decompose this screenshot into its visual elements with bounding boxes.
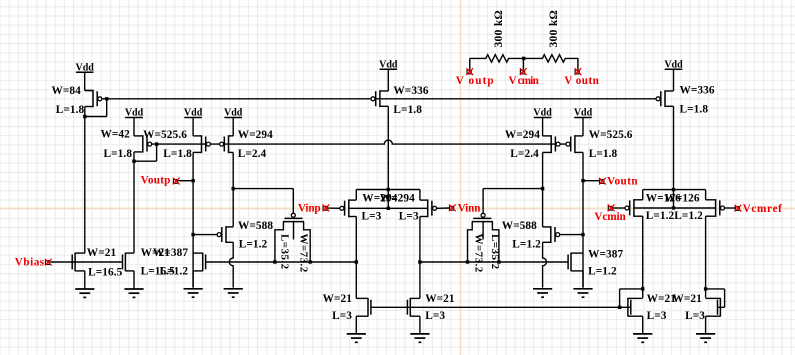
wire right source riser bbox=[419, 190, 421, 201]
svg-text:L=2.4: L=2.4 bbox=[238, 148, 267, 160]
node M1 drain junction bbox=[83, 115, 86, 118]
ground gnd M21 bbox=[633, 334, 652, 342]
capacitor-connected pmos C1 W=73.2 L=35.2 bbox=[275, 213, 310, 262]
wire input pair source bar bbox=[356, 189, 420, 191]
wire M15 gate wire bbox=[560, 234, 583, 236]
wire M22 diode tie horizontal bbox=[706, 288, 725, 290]
wire Vcmin gate wire bbox=[613, 207, 625, 209]
transistor M19 W=21 L=3 nmos bbox=[356, 298, 371, 317]
guide horizontal line bbox=[0, 207, 795, 209]
svg-text:W=336: W=336 bbox=[680, 85, 715, 97]
wire M1 gate-drain tie horizontal bbox=[85, 116, 107, 118]
svg-text:L=1.8: L=1.8 bbox=[680, 104, 709, 116]
svg-text:L=1.8: L=1.8 bbox=[104, 148, 133, 160]
export marker Voutp top export bbox=[466, 68, 473, 75]
svg-text:W=588: W=588 bbox=[502, 220, 537, 232]
svg-text:L=1.8: L=1.8 bbox=[589, 148, 618, 160]
svg-text:L=1.2: L=1.2 bbox=[674, 210, 703, 222]
svg-text:L=3: L=3 bbox=[685, 310, 705, 322]
wire Vinp gate wire bbox=[328, 207, 340, 209]
svg-text:V outp: V outp bbox=[456, 75, 495, 87]
resistor R2 300kOhm bbox=[524, 55, 579, 62]
wire Vdd1 stub bbox=[84, 72, 86, 90]
svg-text:L=3: L=3 bbox=[362, 210, 382, 222]
svg-text:W=525.6: W=525.6 bbox=[143, 129, 187, 141]
wire M2 drain riser to tail bbox=[387, 106, 389, 189]
svg-text:L=1.2: L=1.2 bbox=[588, 266, 617, 278]
wire cmfb bulk bar bbox=[634, 207, 716, 209]
wire gate net M1 to W=336 mirrors bbox=[107, 98, 657, 100]
svg-text:L=35.2: L=35.2 bbox=[278, 234, 290, 270]
transistor M22 W=21 L=3 nmos bbox=[706, 298, 721, 317]
svg-text:W=336: W=336 bbox=[393, 85, 428, 97]
ground gnd M10 bbox=[184, 289, 203, 297]
node M12 drain junction bbox=[418, 260, 421, 263]
wire input pair bulk bar bbox=[349, 207, 428, 209]
wire Vdd5 stub bbox=[387, 69, 389, 91]
node C1 left terminal junction bbox=[273, 260, 276, 263]
power Vdd Vdd2 bbox=[125, 108, 144, 119]
export marker Voutn top export bbox=[575, 68, 582, 75]
wire M3 drain riser to cmfb tail bbox=[673, 106, 675, 189]
wire M17 source to ground bbox=[84, 271, 86, 289]
node M13 drain junction bbox=[641, 287, 644, 290]
node M15 gate junction bbox=[581, 233, 584, 236]
wire M14 drain down bbox=[705, 216, 707, 298]
power Vdd Vdd8 bbox=[664, 60, 683, 71]
transistor M11 W=294 input left bbox=[340, 199, 356, 217]
svg-text:W=588: W=588 bbox=[238, 220, 273, 232]
wire R mid drop bbox=[522, 58, 524, 69]
wire Vdd3 stub bbox=[192, 118, 194, 136]
wire M12 drain down bbox=[419, 217, 421, 299]
ground gnd M17 bbox=[75, 289, 94, 297]
svg-text:L=1.2: L=1.2 bbox=[512, 239, 541, 251]
export marker Vinn export bbox=[449, 204, 456, 211]
svg-text:W=21: W=21 bbox=[673, 293, 703, 305]
wire M19 source to ground bbox=[355, 316, 357, 334]
svg-text:L=16.5: L=16.5 bbox=[88, 266, 123, 278]
wire cmfb tail to bulk bbox=[673, 190, 675, 208]
power Vdd Vdd3 bbox=[184, 108, 203, 119]
wire left source riser bbox=[355, 190, 357, 201]
wire M11 drain down bbox=[355, 217, 357, 299]
wire M1 gate stub bbox=[102, 98, 107, 100]
wire M21 diode tie horizontal bbox=[620, 288, 643, 290]
svg-text:L=3: L=3 bbox=[332, 310, 352, 322]
wire Vdd6 stub bbox=[542, 118, 544, 136]
wire C1 gate riser bbox=[292, 189, 294, 214]
svg-text:Vinn: Vinn bbox=[458, 203, 482, 215]
ground gnd M9 chain bbox=[224, 289, 243, 297]
transistor M2 W=336 pmos bbox=[371, 90, 388, 107]
wire Voutp rail bbox=[192, 152, 194, 287]
export marker Vcmin export bbox=[608, 205, 615, 212]
wire M18 source to ground bbox=[133, 271, 135, 289]
wire Voutp tap bbox=[178, 180, 193, 182]
node cmfb tail junction bbox=[672, 188, 675, 191]
transistor M16 W=387 nmos bbox=[568, 253, 583, 272]
export marker Vinp export bbox=[323, 205, 330, 212]
svg-text:L=1.2: L=1.2 bbox=[160, 266, 189, 278]
svg-text:W=294: W=294 bbox=[380, 193, 415, 205]
node M11 drain junction bbox=[355, 260, 358, 263]
wire Vbias to M17 M18 gates bbox=[51, 261, 123, 263]
node resistor mid junction bbox=[522, 57, 525, 60]
wire left rail down to M17 bbox=[84, 117, 86, 254]
node tail junction bbox=[387, 188, 390, 191]
transistor M12 W=294 input right bbox=[420, 199, 437, 217]
transistor M18 W=21 L=16.5 nmos bbox=[123, 253, 135, 272]
export marker Vbias export bbox=[45, 259, 52, 266]
wire M21 diode tie vertical bbox=[619, 289, 621, 307]
node Voutn junction bbox=[581, 179, 584, 182]
wire M1 top stub ext bbox=[85, 90, 93, 92]
capacitor-connected pmos C2 W=73.2 L=35.2 bbox=[468, 213, 499, 262]
svg-text:W=294: W=294 bbox=[238, 129, 273, 141]
wire tail to bulk bbox=[387, 190, 389, 209]
svg-text:W=126: W=126 bbox=[665, 193, 700, 205]
wire cmfb left segment bbox=[206, 261, 357, 263]
transistor M4 W=42 pmos bbox=[134, 135, 152, 152]
node M14 drain junction bbox=[704, 287, 707, 290]
export marker Voutn export bbox=[599, 178, 606, 185]
wire Vdd8 stub bbox=[673, 69, 675, 91]
ground gnd M16 bbox=[573, 289, 592, 297]
ground gnd M19 bbox=[347, 334, 366, 342]
wire M21 gate stub bbox=[620, 306, 631, 308]
svg-text:300 kΩ: 300 kΩ bbox=[493, 10, 505, 48]
resistor R1 300kOhm bbox=[470, 55, 524, 62]
wire C2 gate to Voutn-branch rail bbox=[483, 188, 542, 190]
wire M7 drain rail upper bbox=[542, 152, 544, 227]
power Vdd Vdd4 bbox=[224, 108, 243, 119]
wire Vdd7 stub bbox=[582, 118, 584, 136]
wire bottom mirror gate net bbox=[371, 306, 620, 308]
wire Vinn gate wire bbox=[437, 207, 451, 209]
svg-text:Voutp: Voutp bbox=[141, 175, 171, 187]
svg-text:W=387: W=387 bbox=[153, 247, 188, 259]
svg-text:Vinp: Vinp bbox=[298, 203, 321, 215]
transistor M8 W=525.6 pmos bbox=[566, 135, 583, 153]
node M4 gate junction bbox=[155, 142, 158, 145]
node M4 drain junction bbox=[132, 160, 135, 163]
node C2 gate junction bbox=[541, 187, 544, 190]
wire Vdd4 stub bbox=[232, 118, 234, 136]
export marker Vcmin top export bbox=[520, 68, 527, 75]
transistor M7 W=294 pmos bbox=[543, 135, 561, 153]
wire C2 gate riser bbox=[482, 189, 484, 214]
wire M22 diode tie vertical bbox=[724, 289, 726, 307]
wire M22 source to ground bbox=[705, 316, 707, 334]
node cmfb bulk junction bbox=[672, 206, 675, 209]
svg-text:L=1.8: L=1.8 bbox=[56, 104, 85, 116]
svg-text:L=3: L=3 bbox=[425, 310, 445, 322]
transistor M1 W=84 pmos bbox=[85, 90, 102, 107]
svg-text:L=3: L=3 bbox=[399, 210, 419, 222]
transistor M14 W=126 cmfb right bbox=[706, 199, 725, 217]
transistor M13 W=126 cmfb left bbox=[625, 199, 643, 217]
svg-text:Voutn: Voutn bbox=[607, 176, 638, 188]
svg-text:L=35.2: L=35.2 bbox=[489, 234, 501, 270]
svg-text:Vcmin: Vcmin bbox=[594, 211, 626, 223]
wire M7 drain rail lower with hop over cmfb wire bbox=[543, 242, 547, 287]
ground gnd M18 bbox=[124, 289, 143, 297]
wire M4 gate tie horizontal bbox=[134, 160, 157, 162]
svg-text:W=21: W=21 bbox=[425, 293, 455, 305]
wire Voutn tap bbox=[583, 180, 600, 182]
export marker Vcmref export bbox=[735, 205, 742, 212]
svg-text:W=525.6: W=525.6 bbox=[589, 129, 633, 141]
svg-text:W=294: W=294 bbox=[505, 129, 540, 141]
wire M16 source to ground bbox=[582, 271, 584, 288]
transistor M10 W=387 nmos bbox=[193, 253, 206, 272]
svg-text:W=21: W=21 bbox=[87, 247, 117, 259]
wire cmfb right source riser bbox=[705, 190, 707, 200]
svg-text:W=387: W=387 bbox=[588, 249, 623, 261]
power Vdd Vdd7 bbox=[574, 108, 593, 119]
ground gnd M15 chain bbox=[533, 289, 552, 297]
transistor M3 W=336 pmos bbox=[656, 90, 673, 107]
wire cmfb source bar bbox=[643, 189, 706, 191]
node bulk junction bbox=[387, 207, 390, 210]
transistor M21 W=21 L=3 nmos bbox=[628, 298, 643, 317]
node M21 gate junction bbox=[618, 306, 621, 309]
wire cmfb right segment bbox=[420, 261, 568, 263]
svg-text:L=3: L=3 bbox=[647, 310, 667, 322]
svg-text:W=73.2: W=73.2 bbox=[297, 234, 309, 273]
svg-text:300 kΩ: 300 kΩ bbox=[548, 10, 560, 48]
wire M22 gate stub bbox=[718, 306, 725, 308]
svg-text:L=1.8: L=1.8 bbox=[163, 148, 192, 160]
power Vdd Vdd6 bbox=[533, 108, 552, 119]
svg-text:L=1.2: L=1.2 bbox=[646, 210, 675, 222]
node C2 left terminal junction bbox=[466, 260, 469, 263]
svg-text:V cmin: V cmin bbox=[509, 75, 540, 87]
transistor M20 W=21 L=3 nmos bbox=[407, 298, 420, 317]
svg-text:W=73.2: W=73.2 bbox=[473, 234, 485, 273]
transistor M5 W=525.6 pmos bbox=[193, 135, 210, 153]
svg-text:L=1.8: L=1.8 bbox=[393, 104, 422, 116]
node M1 gate junction bbox=[105, 97, 108, 100]
svg-text:W=21: W=21 bbox=[323, 293, 353, 305]
svg-text:L=2.4: L=2.4 bbox=[510, 148, 539, 160]
wire C1 gate to Voutp-branch rail bbox=[233, 188, 293, 190]
node Voutp junction bbox=[191, 179, 194, 182]
transistor M9 W=588 pmos bbox=[217, 226, 233, 243]
svg-text:W=42: W=42 bbox=[101, 129, 131, 141]
wire M1 drain riser bbox=[84, 107, 86, 117]
wire M4 gate tie vertical bbox=[156, 144, 158, 161]
wire M20 source to ground bbox=[419, 316, 421, 334]
wire R2 right drop bbox=[577, 58, 579, 69]
transistor M17 W=21 L=16.5 nmos bbox=[72, 253, 85, 272]
wire M9 gate wire bbox=[193, 234, 217, 236]
wire cmfb left source riser bbox=[642, 190, 644, 200]
export marker Voutp export bbox=[173, 178, 180, 185]
wire M1 gate-drain tie vertical bbox=[106, 99, 108, 117]
guide vertical line bbox=[460, 0, 462, 355]
wire M21 source to ground bbox=[642, 316, 644, 334]
svg-text:V outn: V outn bbox=[564, 75, 599, 87]
svg-text:L=1.2: L=1.2 bbox=[239, 239, 268, 251]
svg-text:W=84: W=84 bbox=[52, 85, 82, 97]
wire Vcmref gate wire bbox=[725, 207, 736, 209]
ground gnd M22 bbox=[696, 334, 715, 342]
power Vdd Vdd5 bbox=[379, 60, 398, 71]
node C1 gate junction bbox=[232, 187, 235, 190]
wire R1 left drop bbox=[469, 58, 471, 69]
wire M13 drain down bbox=[642, 216, 644, 298]
wire M4 drain drop bbox=[133, 152, 135, 161]
node C1 right terminal junction bbox=[309, 260, 312, 263]
wire M6 drain rail lower with hop over cmfb wire bbox=[229, 242, 233, 287]
svg-text:Vbias: Vbias bbox=[15, 256, 45, 268]
transistor M6 W=294 pmos bbox=[220, 135, 234, 153]
wire rail down to M18 bbox=[133, 161, 135, 253]
transistor M15 W=588 pmos bbox=[543, 226, 560, 243]
wire mirror gate net with hop over tail bbox=[152, 140, 568, 144]
svg-text:Vcmref: Vcmref bbox=[743, 203, 783, 215]
wire M6 drain rail upper bbox=[232, 152, 234, 227]
node C2 right terminal junction bbox=[497, 260, 500, 263]
power Vdd Vdd1 bbox=[76, 63, 95, 74]
node M9 gate junction bbox=[191, 233, 194, 236]
wire Voutn rail bbox=[582, 152, 584, 287]
wire M10 source to ground bbox=[192, 271, 194, 288]
wire Vdd2 stub bbox=[133, 118, 135, 136]
ground gnd M20 bbox=[410, 334, 429, 342]
